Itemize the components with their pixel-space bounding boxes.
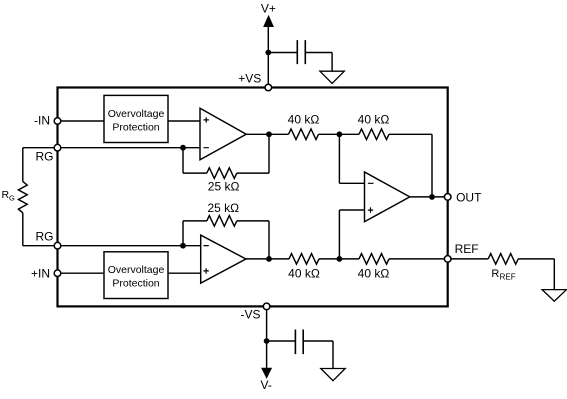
RREF label — [491, 268, 515, 281]
wire to C2 — [267, 340, 296, 342]
junction bottom mid — [337, 256, 343, 262]
wire OVP1 to A1 — [168, 120, 200, 122]
RG label external — [2, 189, 16, 203]
wire 40k to REF — [389, 258, 448, 260]
junction bottom supply — [264, 338, 270, 344]
wire C1 to ground — [305, 53, 332, 72]
resistor 40k bottom-right — [359, 254, 389, 265]
junction top supply — [265, 50, 271, 56]
ground top — [320, 71, 344, 83]
wire 25k to A1 output — [237, 134, 269, 173]
junction A3 output — [429, 194, 435, 200]
svg-text:+IN: +IN — [31, 267, 50, 281]
svg-text:RG: RG — [36, 230, 54, 244]
wire -VS to V- — [266, 310, 268, 370]
overvoltage protection U2 — [104, 252, 168, 299]
V- label — [261, 378, 272, 392]
node -IN — [54, 118, 61, 125]
junction A2 output — [266, 256, 272, 262]
svg-text:Protection: Protection — [112, 278, 159, 290]
V+ arrow — [264, 16, 273, 26]
svg-text:Overvoltage: Overvoltage — [108, 108, 165, 120]
OUT label — [456, 190, 482, 204]
40k top-left label — [288, 112, 320, 126]
svg-text:40 kΩ: 40 kΩ — [358, 112, 390, 126]
wire A2 output — [246, 258, 289, 260]
svg-text:OUT: OUT — [456, 190, 482, 204]
svg-text:Protection: Protection — [112, 122, 159, 134]
svg-text:V-: V- — [261, 378, 272, 392]
wire +IN to OVP2 — [61, 272, 104, 274]
ground bottom — [321, 369, 345, 381]
svg-text:-IN: -IN — [34, 114, 50, 128]
node RG top — [54, 144, 61, 151]
op-amp A1 — [200, 108, 246, 160]
node RG bottom — [54, 242, 61, 249]
resistor 40k bottom-left — [289, 254, 319, 265]
svg-text:G: G — [9, 194, 15, 203]
wire 40k to A3 output junction — [389, 134, 432, 197]
overvoltage protection U1 — [104, 95, 168, 142]
junction A1 inverting — [180, 145, 186, 151]
svg-text:RG: RG — [36, 150, 54, 164]
25k bottom label — [207, 201, 239, 215]
junction A1 output — [266, 131, 272, 137]
node REF — [444, 256, 451, 263]
resistor 40k top-right — [359, 129, 389, 140]
wire -IN to OVP1 — [61, 120, 104, 122]
svg-text:40 kΩ: 40 kΩ — [288, 112, 320, 126]
40k top-right label — [358, 112, 390, 126]
wire between top 40k resistors — [319, 133, 360, 135]
resistor 25k bottom — [207, 216, 237, 227]
svg-text:40 kΩ: 40 kΩ — [358, 267, 390, 281]
junction A2 inverting — [180, 243, 186, 249]
node -VS — [263, 303, 270, 310]
wire RG bottom to A2 inverting input — [61, 245, 201, 247]
wire V+ to +VS — [267, 25, 269, 88]
wire RREF to ground — [518, 259, 554, 290]
wire A3 output — [410, 196, 448, 198]
wire REF to RREF — [451, 258, 488, 260]
capacitor C1 — [297, 40, 305, 64]
node +VS — [265, 84, 272, 91]
wire C2 to ground — [303, 341, 333, 369]
svg-text:Overvoltage: Overvoltage — [108, 264, 165, 276]
40k bottom-right label — [358, 267, 390, 281]
svg-text:25 kΩ: 25 kΩ — [207, 201, 239, 215]
node OUT — [444, 194, 451, 201]
svg-text:R: R — [491, 268, 499, 280]
REF label — [455, 242, 479, 256]
svg-text:REF: REF — [500, 273, 516, 282]
svg-text:REF: REF — [455, 242, 479, 256]
+IN label — [31, 267, 50, 281]
wire A1 output — [246, 133, 288, 135]
wire to C1 — [268, 52, 297, 54]
wire RG top to A1 inverting input — [61, 147, 200, 149]
wire A2 feedback up — [183, 221, 207, 246]
ground right — [542, 290, 566, 302]
resistor 40k top-left — [289, 129, 319, 140]
svg-text:40 kΩ: 40 kΩ — [288, 267, 320, 281]
V+ label — [261, 2, 276, 16]
25k top label — [208, 179, 240, 193]
capacitor C2 — [295, 330, 303, 355]
wire RG top external — [23, 147, 55, 149]
wire A3 noninverting — [339, 210, 364, 259]
wire 25k to A2 output — [237, 221, 269, 259]
wire A1 feedback down — [183, 148, 207, 173]
svg-text:+VS: +VS — [238, 71, 261, 85]
wire OVP2 to A2 — [168, 272, 201, 274]
node +IN — [54, 270, 61, 277]
op-amp A3 — [365, 172, 410, 222]
-VS label — [240, 307, 260, 321]
svg-text:V+: V+ — [261, 2, 276, 16]
resistor RREF — [488, 254, 518, 265]
wire resistor to RG bottom — [23, 213, 55, 246]
svg-text:25 kΩ: 25 kΩ — [208, 179, 240, 193]
RG top label — [36, 150, 54, 164]
wire top mid down to A3 inverting — [339, 134, 364, 183]
resistor RG external — [18, 181, 27, 212]
RG bottom label — [36, 230, 54, 244]
op-amp A2 — [201, 235, 246, 283]
resistor 25k top — [207, 168, 237, 179]
wire RG down to resistor — [22, 148, 24, 182]
wire between bottom 40k resistors — [319, 258, 359, 260]
-IN label — [34, 114, 50, 128]
+VS label — [238, 71, 261, 85]
IC boundary box — [58, 88, 448, 307]
V- arrow — [262, 368, 271, 377]
40k bottom-left label — [288, 267, 320, 281]
junction top mid — [337, 131, 343, 137]
svg-text:-VS: -VS — [240, 307, 260, 321]
